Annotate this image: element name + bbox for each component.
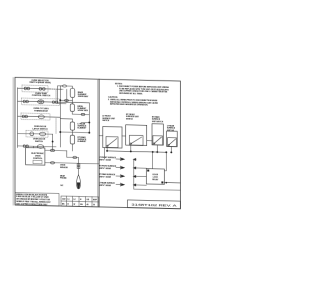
svg-text:AMP: AMP [93, 198, 98, 201]
switch S3 oven cycling thermostat (row C) [18, 108, 61, 121]
wire: row D drop to K1 with junction [52, 134, 54, 150]
svg-text:3148T102 REV. A: 3148T102 REV. A [131, 203, 176, 208]
wire: sensor feed [67, 151, 79, 158]
wire: SW1 left terminal drop [104, 148, 106, 159]
svg-text:ELEMENT: ELEMENT [78, 128, 88, 130]
wire: SW1 drop [106, 148, 108, 151]
wire: dashed switch link b [55, 118, 57, 133]
wire: SW2 drop [130, 145, 132, 151]
wire: SW3 drop to terminal block [156, 145, 158, 152]
svg-text:SWITCH: SWITCH [126, 118, 134, 120]
switch S4 oven door latch switch (row D) [18, 126, 53, 138]
svg-text:W: W [74, 204, 76, 206]
wire: E4 bottom drop [71, 144, 73, 151]
wire: SW1 feed from divider [99, 135, 103, 137]
wire: TB1 to bus riser [164, 152, 166, 171]
legend wiring code block [15, 193, 59, 207]
svg-text:THERMOSTAT: THERMOSTAT [34, 109, 48, 112]
wire: left vertical supply bus [17, 88, 19, 148]
wire: cross tie with junction dots [60, 131, 89, 134]
svg-text:UNIT SWITCH: UNIT SWITCH [152, 121, 164, 123]
svg-text:UNIT 8" 2400W: UNIT 8" 2400W [99, 184, 111, 187]
svg-text:LATCH SWITCH: LATCH SWITCH [32, 127, 48, 130]
notes text block [108, 83, 169, 107]
wire: L2 distribution bus [107, 151, 166, 152]
wire: row1 riser and bottom run [134, 159, 181, 190]
wire: mid vertical bus b [66, 89, 68, 102]
svg-text:GROUNDED AT ALL TIMES.: GROUNDED AT ALL TIMES. [119, 92, 143, 96]
title block 3148T102 REV. A [128, 200, 181, 209]
wire: K1 output 2 with connector P5 [45, 163, 99, 164]
switch SW2 RT front surface unit switch [126, 114, 147, 146]
svg-text:BK: BK [62, 203, 65, 205]
svg-text:SENSOR: SENSOR [60, 167, 68, 169]
svg-text:NC: NC [61, 185, 64, 187]
wire: right vertical bus c [88, 103, 90, 133]
svg-text:GD: GD [87, 199, 90, 201]
svg-text:105C COPPER CONDUCTORS ONLY: 105C COPPER CONDUCTORS ONLY [16, 203, 48, 206]
switch S1 oven selector (row A) [18, 79, 63, 92]
drawing sheet border frame [15, 77, 180, 208]
svg-text:UNIT 6" 1500W: UNIT 6" 1500W [99, 176, 111, 178]
svg-text:30: 30 [93, 204, 95, 206]
svg-text:SWITCH: SWITCH [35, 141, 43, 143]
wire: TB1 to frame right [164, 182, 180, 184]
resistor E2 broil element [70, 104, 74, 112]
wire: relay feeds [27, 146, 29, 147]
wire: E1-E2 link with connector P2 [71, 98, 73, 104]
switch SW1 LT front surface unit switch [102, 116, 122, 148]
resistor E3 top surface element [70, 122, 75, 130]
terminal usage table [61, 196, 99, 207]
switch S2 oven thermostat (row B) [18, 92, 90, 106]
relay K1 electronic oven control [26, 148, 45, 166]
node row 2 RT front surface unit lead [99, 164, 147, 170]
svg-text:L1: L1 [68, 198, 70, 200]
connector P1 [63, 85, 67, 87]
svg-text:PROBE: PROBE [60, 178, 67, 180]
resistor E1 bake element [70, 88, 75, 97]
junction dot bus c tap [81, 121, 89, 123]
wire: E1 top feed loop [58, 86, 67, 104]
svg-text:SWITCH (REAR VIEW): SWITCH (REAR VIEW) [29, 81, 51, 84]
sensor RT1 oven temperature probe [60, 157, 80, 189]
switch SW3 RT rear surface unit switch [147, 115, 164, 145]
svg-text:CONTROL: CONTROL [33, 158, 43, 160]
wire: dashed switch link a [55, 90, 57, 101]
wire: K1 output 1 with connector P4 [45, 149, 67, 151]
svg-text:UNIT 8" 2400W: UNIT 8" 2400W [99, 167, 111, 170]
svg-text:2585W 240V: 2585W 240V [78, 95, 89, 98]
svg-text:CAV: CAV [62, 197, 66, 200]
page edge line [12, 77, 14, 205]
wire: E3 top feed [60, 119, 72, 122]
node row 1 LT front surface unit lead [99, 156, 136, 162]
svg-text:R: R [68, 203, 70, 205]
svg-text:ELEMENT: ELEMENT [78, 141, 88, 143]
terminal block TB1 [146, 169, 164, 185]
svg-text:L2: L2 [74, 199, 76, 201]
wire: E2 bottom to right bus with connector P3 [72, 111, 89, 114]
panel divider line [97, 79, 99, 207]
wire: mid vertical bus a [59, 89, 61, 147]
svg-text:RELAY: RELAY [152, 178, 159, 181]
wire: SW4 drop [170, 147, 172, 153]
svg-text:N: N [80, 199, 82, 201]
node row 3 RT rear surface unit lead [99, 173, 147, 179]
node row 4 LT rear surface unit lead [99, 181, 147, 187]
switch S5 oven door switch (row E) [18, 138, 56, 149]
svg-text:3410W 240V: 3410W 240V [78, 109, 89, 112]
svg-text:SWITCH: SWITCH [102, 120, 110, 122]
junction dot [59, 99, 61, 101]
svg-text:GN: GN [80, 204, 83, 206]
svg-text:UNIT 6" 1500W: UNIT 6" 1500W [99, 159, 111, 161]
wire: SW1-SW2 link [122, 135, 126, 137]
svg-text:40: 40 [87, 203, 89, 206]
svg-text:CONTROL SWITCH: CONTROL SWITCH [32, 95, 51, 97]
switch SW4 LT rear surface unit switch [167, 124, 178, 146]
resistor E4 lower element [70, 135, 75, 144]
